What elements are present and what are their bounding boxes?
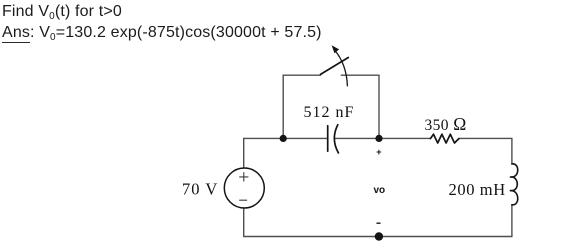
wire: right vertical from inductor bottom to bottom rail <box>511 205 513 237</box>
voltage source plus mark <box>240 173 248 181</box>
svg-text:vo: vo <box>374 185 386 196</box>
svg-text:+: + <box>376 147 381 157</box>
label 350 Ohm <box>425 114 467 134</box>
svg-text:512 nF: 512 nF <box>304 104 355 121</box>
wire: bottom rail <box>244 236 512 238</box>
resistor R1 zigzag <box>430 134 458 143</box>
label vo <box>374 185 386 196</box>
switch SW1 arrowhead <box>332 45 340 53</box>
answer text line 2 <box>2 24 322 43</box>
node B: junction dot at capacitor right / switch-loop right <box>375 135 382 142</box>
wire: switch loop right vertical <box>378 75 380 138</box>
vo minus polarity mark <box>377 222 380 224</box>
svg-text:200 mH: 200 mH <box>449 180 506 199</box>
wire: middle rail from source top to capacitor left plate <box>244 137 328 139</box>
voltage source minus mark <box>240 199 247 201</box>
capacitor C1 right curved plate <box>334 125 338 153</box>
label 70 V <box>182 179 218 198</box>
wire: switch loop left vertical <box>282 75 284 138</box>
wire: source bottom lead <box>243 208 245 237</box>
switch SW1 blade <box>321 58 349 75</box>
wire: middle rail from resistor to top-right corner <box>459 137 512 139</box>
svg-text:350 Ω: 350 Ω <box>425 114 467 134</box>
wire: source top lead <box>243 138 245 168</box>
wire: switch loop top-right segment from switch contact <box>341 74 379 76</box>
label 512 nF <box>304 104 355 121</box>
label 200 mH <box>449 180 506 199</box>
switch SW1 motion arc <box>335 50 348 86</box>
node A: junction dot at capacitor left / switch-loop left <box>280 135 287 142</box>
inductor L1 coils <box>510 164 517 205</box>
svg-text:70 V: 70 V <box>182 179 218 198</box>
vo plus polarity mark <box>376 147 381 157</box>
node C: junction dot on bottom rail <box>375 232 383 240</box>
wire: switch loop top-left segment to switch pivot <box>283 74 320 76</box>
wire: middle rail from capacitor right plate to resistor <box>336 137 431 139</box>
capacitor C1 left plate <box>327 126 329 152</box>
problem text line 1 <box>2 3 122 22</box>
voltage source V1 circle <box>224 168 264 208</box>
wire: right vertical from corner down to inductor top <box>511 138 513 164</box>
